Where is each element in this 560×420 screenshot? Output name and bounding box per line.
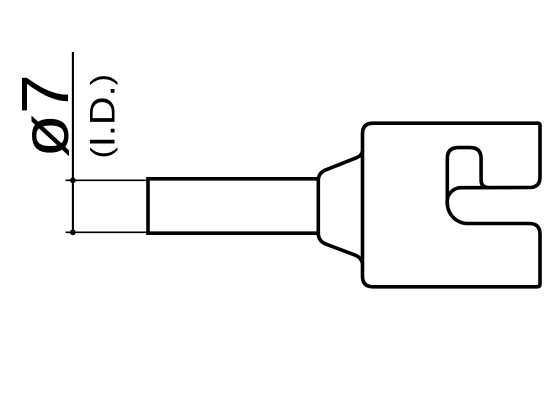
- svg-text:(I.D.): (I.D.): [83, 74, 122, 158]
- nozzle flare cone: [318, 151, 362, 265]
- nozzle tube: [148, 179, 318, 233]
- slot (heater clamp opening): [447, 148, 488, 203]
- dimension extension line (vertical): [72, 52, 74, 234]
- hook lower curve and notch bottom: [447, 203, 540, 234]
- dimension dot top: [70, 177, 76, 183]
- nozzle body outline: [363, 123, 541, 287]
- dimension witness line top: [66, 179, 149, 181]
- dimension dot bottom: [70, 229, 76, 235]
- svg-text:ø7: ø7: [7, 74, 82, 158]
- body notch upper lip: [447, 177, 540, 205]
- dimension witness line bottom: [66, 231, 149, 233]
